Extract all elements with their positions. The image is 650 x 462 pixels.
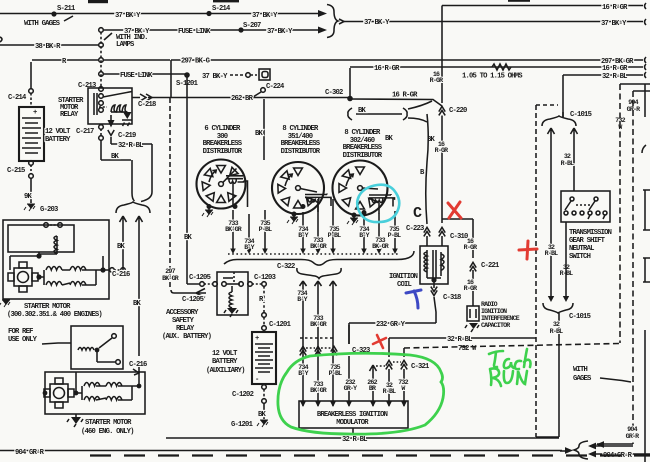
svg-text:BK: BK xyxy=(258,411,267,419)
svg-text:B-Y: B-Y xyxy=(359,232,369,239)
svg-text:LAMPS: LAMPS xyxy=(116,41,135,49)
svg-text:BK: BK xyxy=(255,130,264,138)
svg-text:12 VOLT: 12 VOLT xyxy=(45,128,71,136)
svg-text:C-321: C-321 xyxy=(411,363,430,371)
svg-text:C-216: C-216 xyxy=(129,361,147,369)
svg-text:BK: BK xyxy=(133,300,142,308)
svg-text:BK-GR: BK-GR xyxy=(162,275,179,282)
svg-text:P-BL: P-BL xyxy=(329,370,342,377)
svg-text:P-BL: P-BL xyxy=(388,232,401,239)
svg-text:FOR REF: FOR REF xyxy=(8,328,33,336)
svg-text:C: C xyxy=(413,205,422,222)
svg-text:BATTERY: BATTERY xyxy=(212,358,238,366)
svg-text:37 BK-Y: 37 BK-Y xyxy=(364,19,390,27)
svg-text:GAGES: GAGES xyxy=(573,375,592,383)
svg-text:904 GR-R: 904 GR-R xyxy=(15,449,45,457)
svg-text:1.05 TO 1.15 OHMS: 1.05 TO 1.15 OHMS xyxy=(462,73,523,81)
svg-text:CAPACITOR: CAPACITOR xyxy=(481,322,510,329)
svg-text:6 CYLINDER: 6 CYLINDER xyxy=(204,125,241,133)
svg-text:INTERFERENCE: INTERFERENCE xyxy=(481,315,520,322)
svg-text:C-219: C-219 xyxy=(118,132,136,140)
svg-text:BK-GR: BK-GR xyxy=(310,243,327,250)
svg-text:BK-GR: BK-GR xyxy=(310,387,327,394)
svg-text:S-211: S-211 xyxy=(57,5,76,13)
svg-text:C-221: C-221 xyxy=(481,262,500,270)
svg-text:R-GR: R-GR xyxy=(435,147,448,154)
svg-text:STARTER MOTOR: STARTER MOTOR xyxy=(24,303,71,311)
svg-text:BK: BK xyxy=(117,243,126,251)
svg-text:+: + xyxy=(33,109,37,117)
svg-text:262 BR: 262 BR xyxy=(231,95,254,103)
svg-text:G-1201: G-1201 xyxy=(231,421,254,429)
svg-text:297: 297 xyxy=(165,268,175,275)
svg-text:DISTRIBUTOR: DISTRIBUTOR xyxy=(343,152,383,160)
svg-text:C-302: C-302 xyxy=(325,89,343,97)
svg-text:G-203: G-203 xyxy=(40,206,58,214)
svg-text:P-BL: P-BL xyxy=(259,226,272,233)
svg-text:37 BK-Y: 37 BK-Y xyxy=(267,28,293,36)
svg-text:32 R-BL: 32 R-BL xyxy=(342,436,367,444)
svg-text:C-1201: C-1201 xyxy=(269,321,292,329)
svg-text:RADIO: RADIO xyxy=(481,301,498,308)
svg-text:C-318: C-318 xyxy=(443,294,461,302)
svg-text:WITH: WITH xyxy=(573,366,588,374)
svg-text:FUSE LINK: FUSE LINK xyxy=(178,28,211,36)
svg-text:STARTER MOTOR: STARTER MOTOR xyxy=(85,419,132,427)
svg-text:C-215: C-215 xyxy=(7,167,25,175)
svg-text:(300.302.351.& 400 ENGINES): (300.302.351.& 400 ENGINES) xyxy=(7,311,102,319)
svg-text:8 CYLINDER: 8 CYLINDER xyxy=(282,125,319,133)
svg-text:16 R-GR: 16 R-GR xyxy=(392,92,418,100)
svg-text:B-Y: B-Y xyxy=(244,244,254,251)
svg-text:+: + xyxy=(255,335,259,343)
svg-text:BK-GR: BK-GR xyxy=(225,226,242,233)
svg-text:BR: BR xyxy=(369,385,376,392)
svg-text:WITH GAGES: WITH GAGES xyxy=(24,20,61,28)
svg-text:12 VOLT: 12 VOLT xyxy=(212,350,238,358)
svg-text:(460 ENG. ONLY): (460 ENG. ONLY) xyxy=(81,428,134,436)
svg-text:32: 32 xyxy=(553,321,560,328)
svg-text:BREAKERLESS: BREAKERLESS xyxy=(281,140,321,148)
svg-text:BATTERY: BATTERY xyxy=(45,136,71,144)
svg-text:232 GR-Y: 232 GR-Y xyxy=(376,321,406,329)
svg-text:BK: BK xyxy=(385,135,394,143)
svg-text:C-310: C-310 xyxy=(450,233,468,241)
svg-text:297 BK-G: 297 BK-G xyxy=(181,58,210,66)
svg-text:C-213: C-213 xyxy=(78,82,96,90)
svg-text:37 BK-Y: 37 BK-Y xyxy=(202,73,228,81)
svg-text:R-BL: R-BL xyxy=(550,328,563,335)
svg-text:R-GR: R-GR xyxy=(464,244,477,251)
svg-text:GR-R: GR-R xyxy=(626,433,639,440)
svg-text:BREAKERLESS: BREAKERLESS xyxy=(203,140,243,148)
svg-text:16 R-GR: 16 R-GR xyxy=(374,65,400,73)
svg-text:S-214: S-214 xyxy=(212,5,231,13)
svg-text:C-220: C-220 xyxy=(449,107,467,115)
svg-text:USE ONLY: USE ONLY xyxy=(8,336,38,344)
svg-text:GEAR SHIFT: GEAR SHIFT xyxy=(569,237,606,245)
svg-text:C-1015: C-1015 xyxy=(570,111,592,119)
svg-text:32 R-BL: 32 R-BL xyxy=(602,73,627,81)
svg-text:SAFETY: SAFETY xyxy=(172,317,195,325)
svg-text:C-1202: C-1202 xyxy=(232,391,254,399)
svg-text:S-207: S-207 xyxy=(243,22,261,30)
svg-text:16 R-GR: 16 R-GR xyxy=(602,4,628,12)
svg-text:BREAKERLESS IGNITION: BREAKERLESS IGNITION xyxy=(317,411,388,419)
svg-text:37 BK-Y: 37 BK-Y xyxy=(115,12,141,20)
svg-text:904: 904 xyxy=(627,426,637,433)
svg-text:IGNITION: IGNITION xyxy=(481,308,507,315)
svg-text:37 BK-Y: 37 BK-Y xyxy=(601,20,627,28)
svg-text:COIL: COIL xyxy=(397,281,412,289)
svg-text:MODULATOR: MODULATOR xyxy=(336,419,369,427)
svg-text:32 R-BL: 32 R-BL xyxy=(118,142,143,150)
svg-text:38 BK-R: 38 BK-R xyxy=(35,43,61,51)
svg-text:RELAY: RELAY xyxy=(176,325,195,333)
svg-text:16 R-GR: 16 R-GR xyxy=(602,65,628,73)
svg-text:C-218: C-218 xyxy=(138,101,156,109)
svg-text:BK-GR: BK-GR xyxy=(372,243,389,250)
svg-text:B-Y: B-Y xyxy=(297,296,307,303)
svg-text:BREAKERLESS: BREAKERLESS xyxy=(343,144,383,152)
svg-text:R-GR: R-GR xyxy=(430,77,443,84)
svg-text:DISTRIBUTOR: DISTRIBUTOR xyxy=(203,148,243,156)
svg-text:BK: BK xyxy=(184,234,193,242)
svg-text:C-1015: C-1015 xyxy=(569,313,591,321)
svg-text:B-Y: B-Y xyxy=(298,370,308,377)
svg-text:R-BL: R-BL xyxy=(561,160,574,167)
svg-text:(AUX. BATTERY): (AUX. BATTERY) xyxy=(162,333,212,341)
svg-text:B: B xyxy=(420,169,425,177)
svg-text:RELAY: RELAY xyxy=(60,111,79,119)
svg-text:NEUTRAL: NEUTRAL xyxy=(569,245,594,253)
svg-text:R-BL: R-BL xyxy=(545,250,558,257)
svg-text:IGNITION: IGNITION xyxy=(389,273,418,281)
svg-text:BK-GR: BK-GR xyxy=(310,321,327,328)
svg-text:R-GR: R-GR xyxy=(464,285,477,292)
svg-text:C-224: C-224 xyxy=(266,83,285,91)
svg-text:C-223: C-223 xyxy=(406,225,424,233)
svg-text:DISTRIBUTOR: DISTRIBUTOR xyxy=(281,148,321,156)
svg-text:B-Y: B-Y xyxy=(298,232,308,239)
svg-text:C-216: C-216 xyxy=(112,271,130,279)
svg-text:FUSE LINK: FUSE LINK xyxy=(120,72,153,80)
svg-text:C-214: C-214 xyxy=(8,94,27,102)
svg-text:C-322: C-322 xyxy=(277,263,295,271)
svg-text:32: 32 xyxy=(564,153,571,160)
svg-text:C-1205: C-1205 xyxy=(182,296,204,304)
svg-text:P-BL: P-BL xyxy=(328,232,341,239)
svg-text:8 CYLINDER: 8 CYLINDER xyxy=(344,129,381,137)
svg-text:GR-Y: GR-Y xyxy=(344,385,357,392)
svg-text:37 BK-Y: 37 BK-Y xyxy=(252,12,278,20)
svg-text:SWITCH: SWITCH xyxy=(569,253,591,261)
svg-text:32 R-BL: 32 R-BL xyxy=(447,336,472,344)
svg-text:C-1205: C-1205 xyxy=(189,274,211,282)
svg-text:R: R xyxy=(62,58,67,66)
svg-text:W: W xyxy=(401,385,405,392)
svg-text:TRANSMISSION: TRANSMISSION xyxy=(569,229,612,237)
svg-text:C-217: C-217 xyxy=(76,128,94,136)
svg-text:(AUXILIARY): (AUXILIARY) xyxy=(206,367,245,375)
svg-text:R-BL: R-BL xyxy=(383,388,396,395)
svg-text:C-1203: C-1203 xyxy=(254,274,276,282)
svg-text:-: - xyxy=(255,376,259,384)
svg-text:ACCESSORY: ACCESSORY xyxy=(166,309,199,317)
